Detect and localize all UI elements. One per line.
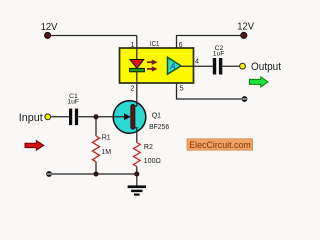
wire <box>136 167 138 175</box>
resistor R2 zigzag <box>133 143 140 167</box>
wire <box>177 36 241 49</box>
svg-text:1uF: 1uF <box>213 50 225 57</box>
transistor Q2 body (Q1 circle) <box>113 101 146 134</box>
transistor Q1 gate arrow <box>124 113 131 120</box>
wire <box>222 65 239 67</box>
wire <box>135 128 137 143</box>
diode LED inside IC1 <box>130 60 145 72</box>
svg-text:ElecCircuit.com: ElecCircuit.com <box>189 140 251 151</box>
red input arrow <box>25 141 44 151</box>
wire <box>52 173 137 175</box>
terminal minus right <box>242 96 248 102</box>
wire <box>181 65 213 67</box>
light arrow 1 <box>147 59 157 65</box>
wire <box>95 162 97 174</box>
wire <box>78 116 127 118</box>
svg-text:R2: R2 <box>144 144 153 151</box>
resistor R1 zigzag <box>92 136 99 162</box>
wire <box>95 117 97 136</box>
svg-text:6: 6 <box>179 40 183 49</box>
wire <box>135 36 137 107</box>
light arrow 2 <box>147 66 157 72</box>
transistor Q1 channel bar <box>131 105 135 129</box>
terminal 12V left <box>45 32 51 38</box>
svg-text:4: 4 <box>195 57 199 66</box>
svg-text:12V: 12V <box>41 21 58 33</box>
svg-text:R1: R1 <box>102 135 111 142</box>
photo detector amp triangle inside IC1 <box>168 57 182 74</box>
wire <box>50 35 137 37</box>
green output arrow <box>250 77 269 87</box>
svg-text:2: 2 <box>130 83 134 92</box>
svg-text:100Ω: 100Ω <box>144 158 161 165</box>
terminal Output <box>240 63 246 69</box>
node junction R2 bottom / ground <box>135 172 139 176</box>
svg-text:A: A <box>169 62 176 71</box>
wire <box>177 83 242 99</box>
ground <box>128 185 146 195</box>
wire <box>136 174 138 186</box>
capacitor C1 plates <box>69 109 78 126</box>
node junction at gate <box>94 115 98 119</box>
svg-text:1uF: 1uF <box>67 98 79 105</box>
op-amp U1 body (optocoupler IC1 yellow body) <box>120 48 194 83</box>
svg-text:12V: 12V <box>237 21 254 33</box>
svg-text:1: 1 <box>131 40 135 49</box>
svg-text:Input: Input <box>19 112 43 124</box>
svg-text:BF256: BF256 <box>149 124 169 131</box>
wire <box>51 116 69 118</box>
svg-text:5: 5 <box>180 83 184 92</box>
terminal 12V right <box>241 32 247 38</box>
capacitor C2 plates <box>213 58 222 75</box>
svg-text:IC1: IC1 <box>150 39 160 48</box>
terminal Input <box>45 114 51 120</box>
svg-text:1M: 1M <box>101 149 111 156</box>
svg-text:Q1: Q1 <box>152 113 161 120</box>
svg-text:Output: Output <box>251 61 281 73</box>
ElecCircuit.com badge <box>187 139 253 151</box>
terminal minus bottom-left <box>46 171 52 177</box>
node junction R1 bottom <box>94 172 98 176</box>
